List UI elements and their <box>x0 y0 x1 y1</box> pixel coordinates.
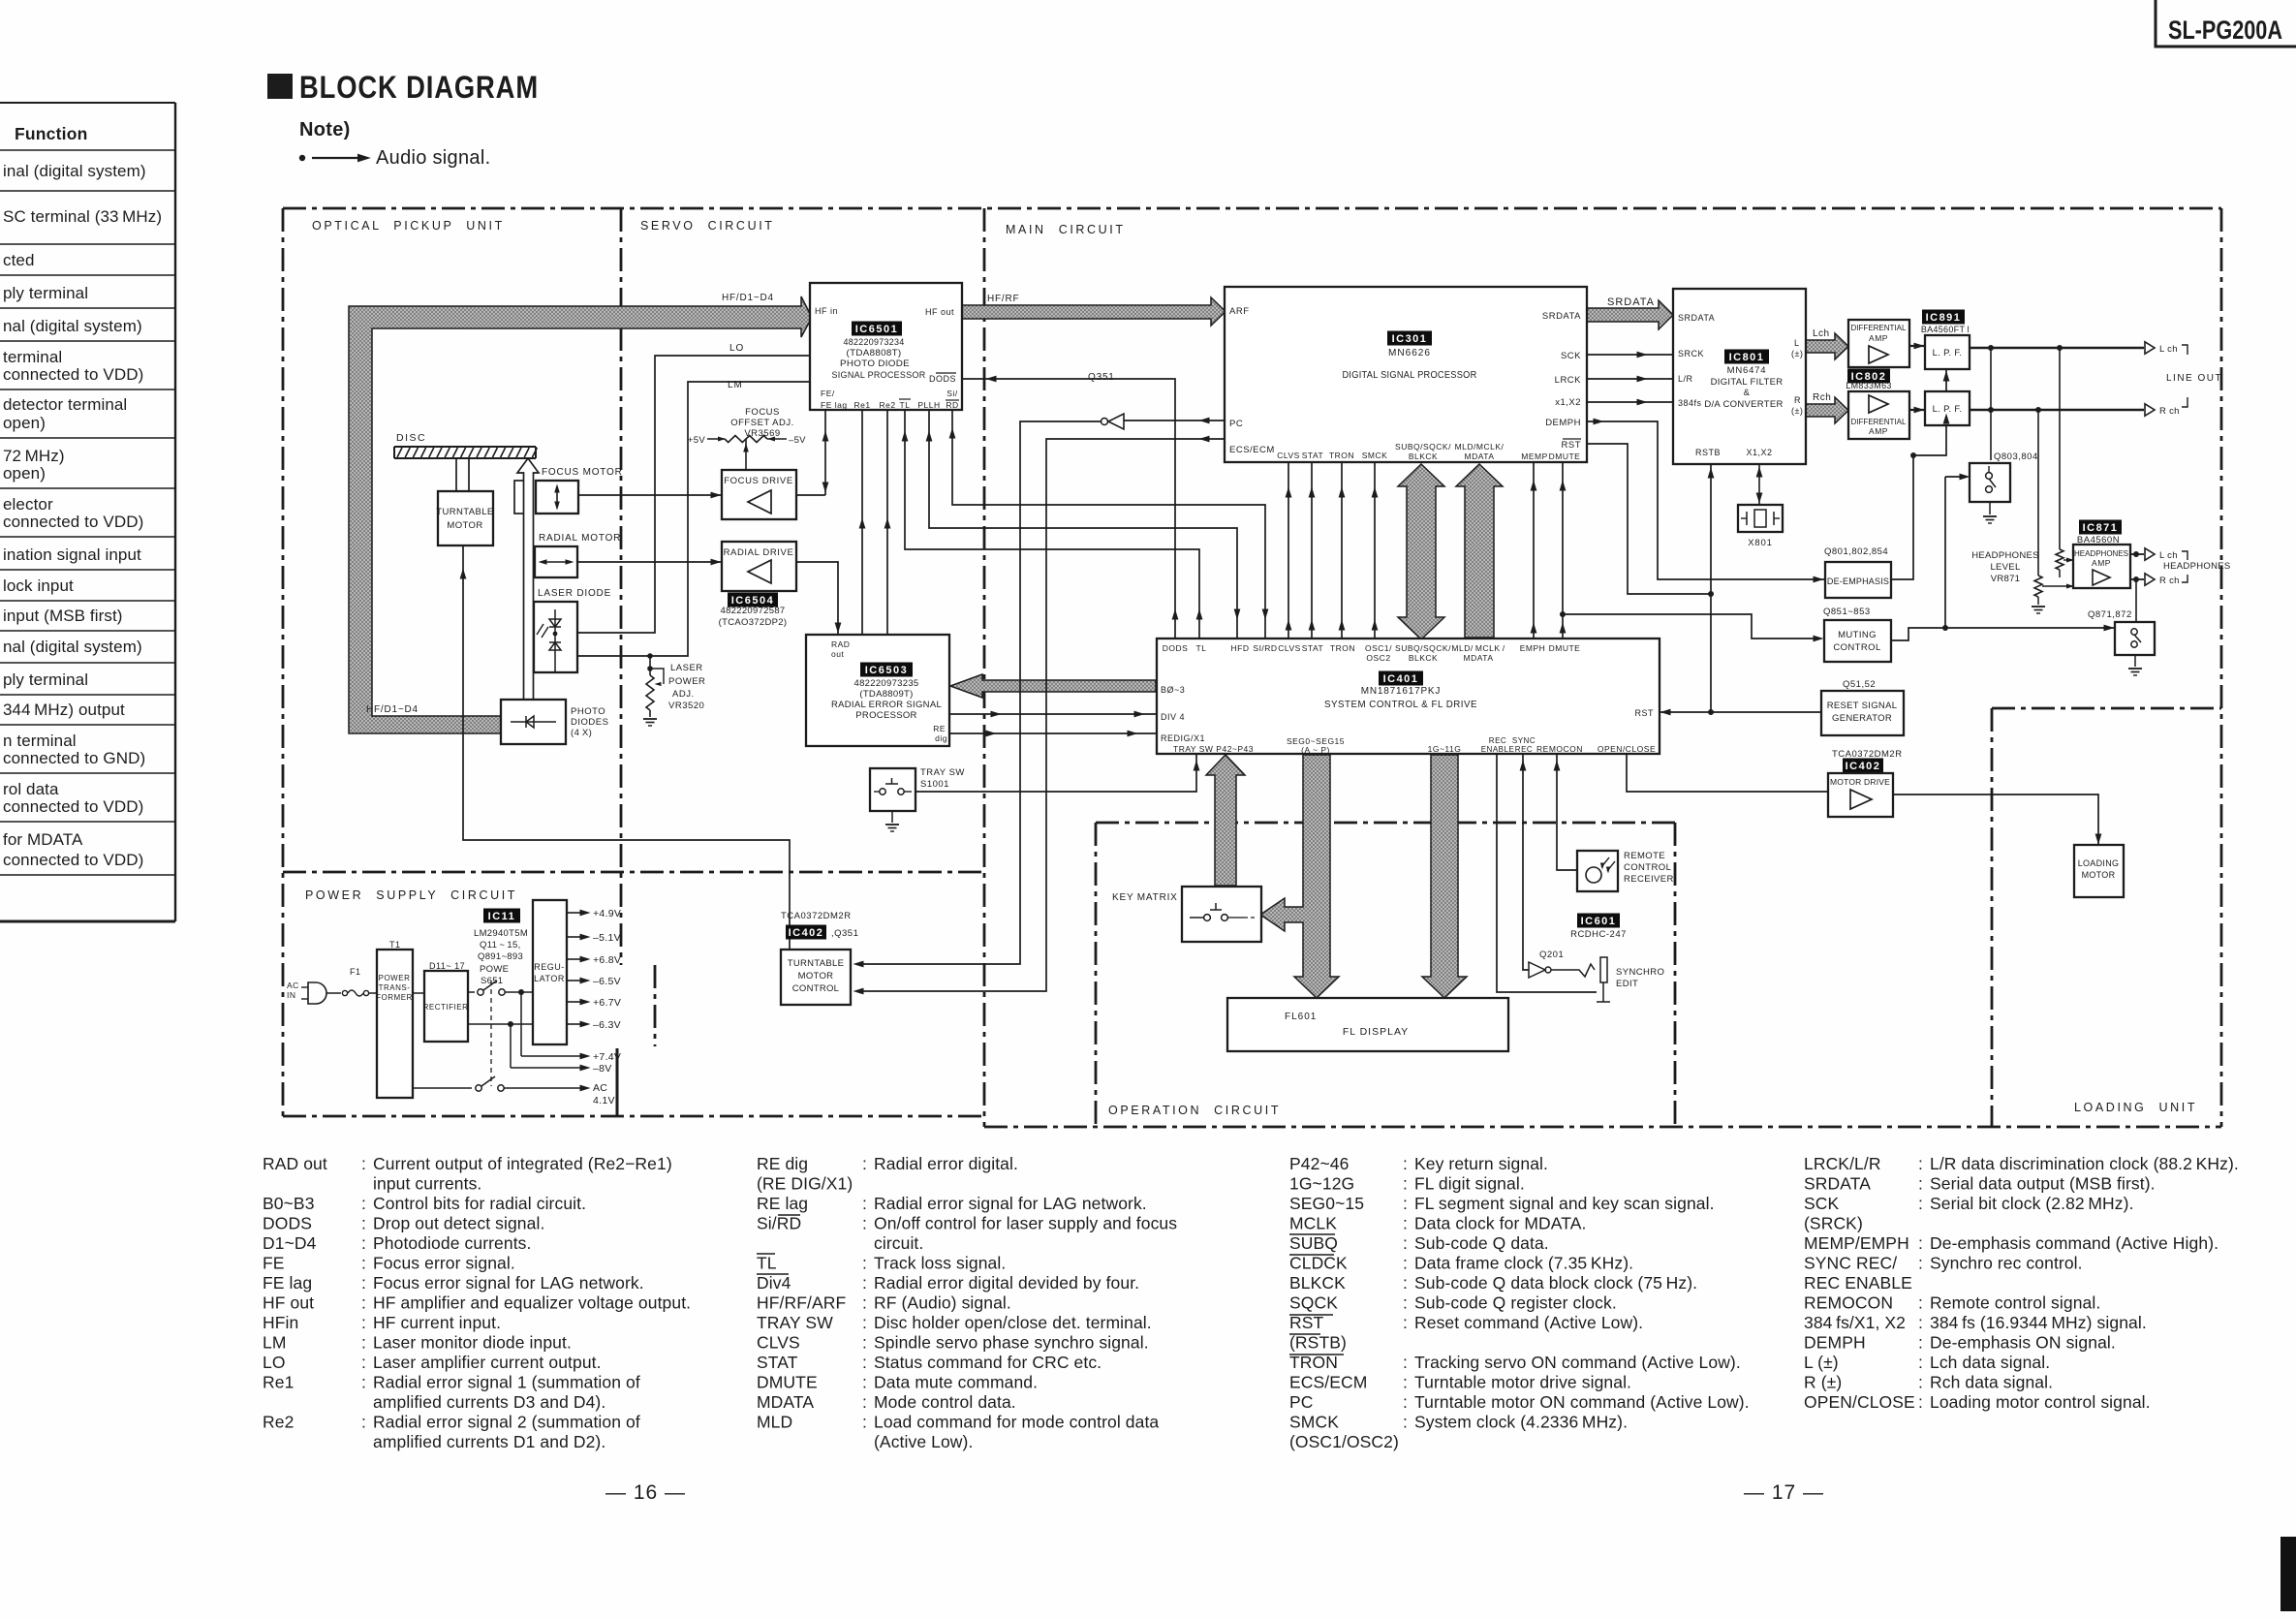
svg-text:SIGNAL PROCESSOR: SIGNAL PROCESSOR <box>832 370 926 381</box>
svg-text:HF/RF: HF/RF <box>987 294 1019 304</box>
svg-text:T1: T1 <box>389 940 401 950</box>
svg-text:FE lag: FE lag <box>821 400 848 410</box>
svg-text:IC801: IC801 <box>1729 352 1765 363</box>
svg-text:ply terminal: ply terminal <box>3 670 88 689</box>
svg-text:Photodiode currents.: Photodiode currents. <box>373 1233 532 1253</box>
svg-text:HEADPHONES: HEADPHONES <box>2074 549 2128 558</box>
svg-text:OPERATION CIRCUIT: OPERATION CIRCUIT <box>1108 1104 1281 1117</box>
svg-text:CLDCK: CLDCK <box>1289 1254 1348 1273</box>
svg-text:Data clock for MDATA.: Data clock for MDATA. <box>1414 1214 1586 1233</box>
svg-text:IC402: IC402 <box>1846 761 1881 772</box>
svg-text:Mode control data.: Mode control data. <box>874 1392 1016 1412</box>
svg-text:Disc holder open/close det. te: Disc holder open/close det. terminal. <box>874 1313 1152 1332</box>
svg-text:–6.5V: –6.5V <box>593 976 621 987</box>
svg-text:IC402: IC402 <box>789 927 824 939</box>
svg-text:RADIAL DRIVE: RADIAL DRIVE <box>724 547 794 558</box>
svg-text:L (±): L (±) <box>1804 1353 1839 1372</box>
svg-text:LRCK/L/R: LRCK/L/R <box>1804 1154 1881 1173</box>
svg-text:VR871: VR871 <box>1991 574 2021 584</box>
svg-text::: : <box>1918 1174 1923 1194</box>
svg-text::: : <box>862 1293 867 1313</box>
svg-text:MDATA: MDATA <box>1464 653 1494 663</box>
svg-text:RCDHC‑247: RCDHC‑247 <box>1570 929 1627 940</box>
svg-text:DIGITAL FILTER: DIGITAL FILTER <box>1711 377 1784 388</box>
svg-text:+4.9V: +4.9V <box>593 908 621 919</box>
svg-text:384 fs (16.9344 MHz) signal.: 384 fs (16.9344 MHz) signal. <box>1930 1313 2147 1332</box>
svg-text:FOCUS MOTOR: FOCUS MOTOR <box>542 467 623 478</box>
svg-text:–5V: –5V <box>789 435 806 446</box>
svg-text:SRDATA: SRDATA <box>1804 1174 1871 1194</box>
svg-text:SRDATA: SRDATA <box>1542 311 1581 322</box>
svg-text:PLLH: PLLH <box>917 400 940 410</box>
svg-text:CONTROL: CONTROL <box>1833 642 1880 653</box>
svg-text::: : <box>361 1313 366 1332</box>
svg-text:RECEIVER: RECEIVER <box>1624 874 1674 885</box>
svg-text:R (±): R (±) <box>1804 1373 1842 1392</box>
svg-text:x1,X2: x1,X2 <box>1555 397 1581 408</box>
svg-text:FORMER: FORMER <box>376 993 413 1002</box>
svg-text:SYSTEM CONTROL & FL DRIVE: SYSTEM CONTROL & FL DRIVE <box>1324 700 1477 710</box>
svg-text:ENABLE: ENABLE <box>1481 745 1515 754</box>
svg-text:SCK: SCK <box>1561 351 1581 361</box>
svg-text:D1~D4: D1~D4 <box>263 1233 317 1253</box>
svg-text::: : <box>1403 1154 1408 1173</box>
svg-text:L/R: L/R <box>1678 374 1693 384</box>
svg-text:Sub-code Q data block clock (7: Sub-code Q data block clock (75 Hz). <box>1414 1273 1697 1293</box>
svg-text::: : <box>361 1293 366 1313</box>
svg-text:ination signal input: ination signal input <box>3 545 141 564</box>
svg-text:MCLK: MCLK <box>1289 1214 1337 1233</box>
svg-text:L ch: L ch <box>2159 344 2178 355</box>
svg-text:POWER: POWER <box>379 974 411 982</box>
svg-text:482220972587: 482220972587 <box>720 606 785 616</box>
svg-text:TCA0372DM2R: TCA0372DM2R <box>781 911 852 921</box>
svg-text:X1,X2: X1,X2 <box>1746 448 1772 457</box>
svg-text:L: L <box>1794 338 1800 348</box>
svg-text::: : <box>1403 1233 1408 1253</box>
svg-text:REC: REC <box>1515 745 1533 754</box>
svg-text:HF out: HF out <box>263 1293 314 1313</box>
svg-text:LATOR: LATOR <box>534 974 565 983</box>
svg-text:482220973235: 482220973235 <box>853 678 918 689</box>
svg-text:Radial error digital devided b: Radial error digital devided by four. <box>874 1273 1139 1293</box>
svg-text:RECTIFIER: RECTIFIER <box>423 1003 469 1012</box>
svg-text:lock input: lock input <box>3 576 74 595</box>
svg-text:RST: RST <box>1289 1313 1324 1332</box>
svg-text:PROCESSOR: PROCESSOR <box>855 710 916 721</box>
svg-text:SEG0~15: SEG0~15 <box>1289 1194 1364 1213</box>
svg-text:DMUTE: DMUTE <box>1549 643 1581 653</box>
svg-text:IC6503: IC6503 <box>865 665 908 676</box>
svg-text:IC601: IC601 <box>1581 916 1617 927</box>
svg-text:connected to VDD): connected to VDD) <box>3 851 143 869</box>
svg-text:(±): (±) <box>1791 406 1803 416</box>
svg-text:RF (Audio) signal.: RF (Audio) signal. <box>874 1293 1011 1313</box>
svg-text:EMPH: EMPH <box>1520 643 1546 653</box>
svg-text:input currents.: input currents. <box>373 1174 481 1194</box>
svg-text:SUBQ/SQCK/: SUBQ/SQCK/ <box>1395 442 1451 452</box>
svg-text:(A ~ P): (A ~ P) <box>1301 745 1330 755</box>
svg-text:(OSC1/OSC2): (OSC1/OSC2) <box>1289 1432 1399 1451</box>
svg-text:connected to VDD): connected to VDD) <box>3 797 143 816</box>
svg-text:Remote control signal.: Remote control signal. <box>1930 1293 2100 1313</box>
svg-text:Re2: Re2 <box>879 400 895 410</box>
svg-text:FL601: FL601 <box>1285 1012 1317 1022</box>
svg-text:OSC1/: OSC1/ <box>1365 643 1392 653</box>
svg-text:–8V: –8V <box>593 1063 612 1075</box>
svg-text:D/A CONVERTER: D/A CONVERTER <box>1704 399 1783 410</box>
svg-text:IC891: IC891 <box>1926 312 1962 324</box>
svg-text:Rch data signal.: Rch data signal. <box>1930 1373 2053 1392</box>
svg-text:Key return signal.: Key return signal. <box>1414 1154 1548 1173</box>
svg-text:R: R <box>1794 395 1801 405</box>
svg-text:rol data: rol data <box>3 780 59 798</box>
svg-text:DIODES: DIODES <box>571 717 608 728</box>
svg-text:open): open) <box>3 464 46 483</box>
svg-text:(TDA8808T): (TDA8808T) <box>847 348 902 358</box>
svg-text:OSC2: OSC2 <box>1366 653 1390 663</box>
svg-text:IC401: IC401 <box>1383 673 1419 685</box>
svg-text::: : <box>862 1273 867 1293</box>
svg-text:Lch data signal.: Lch data signal. <box>1930 1353 2050 1372</box>
svg-text:RST: RST <box>1562 440 1582 451</box>
svg-text:DISC: DISC <box>396 432 426 444</box>
svg-text:Q851~853: Q851~853 <box>1823 607 1871 617</box>
svg-text::: : <box>862 1413 867 1432</box>
svg-text:— 16 —: — 16 — <box>605 1481 686 1504</box>
svg-text:RE lag: RE lag <box>757 1194 808 1213</box>
svg-text:Drop out detect signal.: Drop out detect signal. <box>373 1214 544 1233</box>
svg-text:RADIAL ERROR SIGNAL: RADIAL ERROR SIGNAL <box>831 700 942 710</box>
svg-text:L. P. F.: L. P. F. <box>1933 404 1963 415</box>
svg-text:STAT: STAT <box>1302 643 1323 653</box>
svg-text:REC ENABLE: REC ENABLE <box>1804 1273 1912 1293</box>
svg-text:Q803,804: Q803,804 <box>1994 452 2038 462</box>
svg-text:OPEN/CLOSE: OPEN/CLOSE <box>1804 1392 1915 1412</box>
svg-text:LINE OUT: LINE OUT <box>2166 373 2222 384</box>
svg-text:CONTROL: CONTROL <box>792 983 840 994</box>
svg-text:STAT: STAT <box>757 1353 798 1372</box>
svg-text:F1: F1 <box>350 967 361 977</box>
svg-text:OPTICAL PICKUP UNIT: OPTICAL PICKUP UNIT <box>312 219 505 233</box>
svg-text:–5.1V: –5.1V <box>593 932 621 944</box>
svg-text::: : <box>1918 1313 1923 1332</box>
svg-text:BA4560FT I: BA4560FT I <box>1921 325 1970 334</box>
svg-text:PHOTO DIODE: PHOTO DIODE <box>840 358 910 369</box>
svg-text:Q891~893: Q891~893 <box>478 951 523 962</box>
svg-text:Si/RD: Si/RD <box>757 1214 801 1233</box>
svg-text::: : <box>1403 1353 1408 1372</box>
svg-text:RD: RD <box>946 400 958 410</box>
svg-text::: : <box>1403 1293 1408 1313</box>
svg-text::: : <box>862 1214 867 1233</box>
svg-text:terminal: terminal <box>3 348 62 366</box>
svg-text:CONTROL: CONTROL <box>1624 862 1671 873</box>
svg-text:Status command for CRC etc.: Status command for CRC etc. <box>874 1353 1101 1372</box>
svg-text:SCK: SCK <box>1804 1194 1840 1213</box>
svg-text:72 MHz): 72 MHz) <box>3 447 65 465</box>
svg-text:HF/D1~D4: HF/D1~D4 <box>366 704 419 715</box>
svg-text:RAD out: RAD out <box>263 1154 327 1173</box>
svg-text:LO: LO <box>729 343 744 354</box>
svg-text:DMUTE: DMUTE <box>757 1373 818 1392</box>
svg-text:(±): (±) <box>1791 349 1803 358</box>
svg-text:X801: X801 <box>1748 538 1772 548</box>
svg-text:MDATA: MDATA <box>1465 452 1495 461</box>
svg-text:RADIAL MOTOR: RADIAL MOTOR <box>539 533 621 544</box>
svg-text:(RE DIG/X1): (RE DIG/X1) <box>757 1174 853 1194</box>
svg-text:Loading motor control signal.: Loading motor control signal. <box>1930 1392 2151 1412</box>
svg-text:SERVO CIRCUIT: SERVO CIRCUIT <box>640 219 775 233</box>
svg-text:S1001: S1001 <box>920 779 949 790</box>
svg-text:DMUTE: DMUTE <box>1549 452 1581 461</box>
svg-text:FL digit signal.: FL digit signal. <box>1414 1174 1525 1194</box>
svg-text:TL: TL <box>900 400 911 410</box>
svg-text:SRDATA: SRDATA <box>1678 313 1715 323</box>
svg-text:BØ~3: BØ~3 <box>1161 685 1185 695</box>
svg-text:L ch: L ch <box>2159 550 2178 561</box>
svg-text:HF in: HF in <box>815 306 838 316</box>
svg-text:REC: REC <box>1489 736 1506 745</box>
svg-text:LOADING UNIT: LOADING UNIT <box>2074 1101 2197 1114</box>
svg-text:BLKCK: BLKCK <box>1289 1273 1346 1293</box>
svg-text:Spindle servo phase synchro si: Spindle servo phase synchro signal. <box>874 1333 1149 1353</box>
svg-text:IC301: IC301 <box>1392 333 1428 345</box>
svg-text:nal (digital system): nal (digital system) <box>3 638 142 656</box>
svg-text:Laser amplifier current output: Laser amplifier current output. <box>373 1353 602 1372</box>
svg-text:MOTOR DRIVE: MOTOR DRIVE <box>1830 777 1890 787</box>
svg-text::: : <box>1918 1254 1923 1273</box>
svg-text::: : <box>1403 1413 1408 1432</box>
svg-text:open): open) <box>3 414 46 432</box>
svg-text:AMP: AMP <box>2092 558 2111 568</box>
svg-text:OPEN/CLOSE: OPEN/CLOSE <box>1598 744 1656 754</box>
svg-text:Turntable motor ON command (Ac: Turntable motor ON command (Active Low). <box>1414 1392 1750 1412</box>
svg-text:TCA0372DM2R: TCA0372DM2R <box>1832 749 1903 760</box>
svg-text:Tracking servo ON command (Act: Tracking servo ON command (Active Low). <box>1414 1353 1741 1372</box>
svg-text:Q351: Q351 <box>1088 372 1115 383</box>
svg-text:SL-PG200A: SL-PG200A <box>2168 16 2282 45</box>
svg-text:Si/: Si/ <box>946 389 958 398</box>
svg-text:HFin: HFin <box>263 1313 298 1332</box>
svg-text:connected to VDD): connected to VDD) <box>3 513 143 531</box>
svg-text:for MDATA: for MDATA <box>3 830 83 849</box>
svg-text:PC: PC <box>1289 1392 1314 1412</box>
svg-text:REMOCON: REMOCON <box>1804 1293 1893 1313</box>
svg-text:D11~ 17: D11~ 17 <box>429 961 465 971</box>
svg-text:MEMP: MEMP <box>1521 452 1548 461</box>
svg-text:System clock (4.2336 MHz).: System clock (4.2336 MHz). <box>1414 1413 1628 1432</box>
svg-text:POWER: POWER <box>668 676 705 687</box>
svg-text:TRAY SW: TRAY SW <box>757 1313 833 1332</box>
svg-text:DIV 4: DIV 4 <box>1161 712 1185 722</box>
svg-text:LASER: LASER <box>670 663 703 673</box>
svg-text:RE: RE <box>933 724 946 733</box>
svg-text:STAT: STAT <box>1302 451 1323 460</box>
svg-text:FL DISPLAY: FL DISPLAY <box>1343 1026 1409 1038</box>
svg-text:REDIG/X1: REDIG/X1 <box>1161 733 1205 743</box>
svg-text:Sub-code Q register clock.: Sub-code Q register clock. <box>1414 1293 1617 1313</box>
svg-text:(TCAO372DP2): (TCAO372DP2) <box>719 617 788 628</box>
svg-text:ECS/ECM: ECS/ECM <box>1229 445 1275 455</box>
svg-text:Radial error signal for LAG ne: Radial error signal for LAG network. <box>874 1194 1147 1213</box>
svg-text:HF amplifier and equalizer vol: HF amplifier and equalizer voltage outpu… <box>373 1293 691 1313</box>
svg-text:SRDATA: SRDATA <box>1607 296 1655 308</box>
svg-text::: : <box>1918 1392 1923 1412</box>
svg-text::: : <box>1918 1373 1923 1392</box>
svg-text::: : <box>361 1413 366 1432</box>
svg-text:&: & <box>1744 388 1751 398</box>
svg-text:DEMPH: DEMPH <box>1545 418 1581 428</box>
svg-text:,Q351: ,Q351 <box>831 928 858 939</box>
svg-text::: : <box>1403 1194 1408 1213</box>
svg-text:SYNC: SYNC <box>1512 736 1536 745</box>
svg-text:GENERATOR: GENERATOR <box>1832 713 1892 724</box>
svg-text:DEMPH: DEMPH <box>1804 1333 1866 1353</box>
svg-text::: : <box>361 1233 366 1253</box>
svg-text:AMP: AMP <box>1869 426 1888 436</box>
svg-text:TRANS-: TRANS- <box>379 983 411 992</box>
svg-text::: : <box>361 1154 366 1173</box>
svg-text:FL segment signal and key scan: FL segment signal and key scan signal. <box>1414 1194 1715 1213</box>
svg-text:Audio signal.: Audio signal. <box>376 147 490 169</box>
svg-text:+5V: +5V <box>688 435 705 446</box>
svg-text:(SRCK): (SRCK) <box>1804 1214 1863 1233</box>
svg-text:MUTING: MUTING <box>1838 630 1877 640</box>
svg-text::: : <box>1403 1392 1408 1412</box>
svg-text:FE/: FE/ <box>821 389 835 398</box>
svg-text:Synchro rec control.: Synchro rec control. <box>1930 1254 2083 1273</box>
svg-text:MLD: MLD <box>757 1413 792 1432</box>
svg-text:TL: TL <box>1196 643 1207 653</box>
svg-text:Reset command (Active Low).: Reset command (Active Low). <box>1414 1313 1643 1332</box>
svg-text:TURNTABLE: TURNTABLE <box>788 958 844 969</box>
svg-text:1G~11G: 1G~11G <box>1428 744 1462 754</box>
svg-text:Re1: Re1 <box>263 1373 294 1392</box>
svg-text:Serial bit clock (2.82 MHz).: Serial bit clock (2.82 MHz). <box>1930 1194 2134 1213</box>
svg-text:dig: dig <box>935 733 947 743</box>
svg-text:–6.3V: –6.3V <box>593 1019 621 1031</box>
svg-text:+6.8V: +6.8V <box>593 954 621 966</box>
svg-text:HEADPHONES: HEADPHONES <box>2163 561 2231 572</box>
svg-text::: : <box>361 1254 366 1273</box>
svg-text:OFFSET ADJ.: OFFSET ADJ. <box>730 418 794 428</box>
svg-text:CLVS: CLVS <box>1277 451 1300 460</box>
svg-text:Radial error signal 1 (summati: Radial error signal 1 (summation of <box>373 1373 640 1392</box>
svg-text:Focus error signal.: Focus error signal. <box>373 1254 515 1273</box>
svg-text:De-emphasis ON signal.: De-emphasis ON signal. <box>1930 1333 2116 1353</box>
svg-text:344 MHz) output: 344 MHz) output <box>3 701 125 719</box>
svg-text:MN6474: MN6474 <box>1727 365 1767 376</box>
svg-text:De-emphasis command (Active Hi: De-emphasis command (Active High). <box>1930 1233 2218 1253</box>
svg-text:— 17 —: — 17 — <box>1744 1481 1824 1504</box>
svg-text:Load command for mode control: Load command for mode control data <box>874 1413 1159 1432</box>
svg-text:Current output of integrated (: Current output of integrated (Re2−Re1) <box>373 1154 672 1173</box>
svg-text:FOCUS DRIVE: FOCUS DRIVE <box>724 476 793 486</box>
svg-text:SRCK: SRCK <box>1678 349 1704 358</box>
svg-text:MOTOR: MOTOR <box>447 520 482 531</box>
svg-text:TL: TL <box>757 1254 777 1273</box>
svg-text::: : <box>1918 1333 1923 1353</box>
svg-text:TRAY SW: TRAY SW <box>920 767 965 778</box>
svg-text:CLVS: CLVS <box>757 1333 800 1353</box>
svg-text:MLD/ MCLK /: MLD/ MCLK / <box>1451 643 1505 653</box>
svg-text:RE dig: RE dig <box>757 1154 808 1173</box>
svg-text:Rch: Rch <box>1813 392 1831 403</box>
svg-text:Sub-code Q data.: Sub-code Q data. <box>1414 1233 1549 1253</box>
svg-text:P42~46: P42~46 <box>1289 1154 1349 1173</box>
svg-text:Q11 ~ 15,: Q11 ~ 15, <box>480 940 521 950</box>
svg-text:AC: AC <box>593 1082 607 1094</box>
svg-text:IC11: IC11 <box>488 911 516 922</box>
svg-text:HEADPHONES: HEADPHONES <box>1971 550 2039 561</box>
svg-text:384fs: 384fs <box>1678 398 1702 408</box>
svg-text:R ch: R ch <box>2159 406 2180 417</box>
svg-text:nal (digital system): nal (digital system) <box>3 317 142 335</box>
svg-text:KEY MATRIX: KEY MATRIX <box>1112 892 1178 903</box>
svg-text:EDIT: EDIT <box>1616 979 1638 989</box>
svg-text:Div4: Div4 <box>757 1273 791 1293</box>
svg-text::: : <box>862 1373 867 1392</box>
svg-text:Q801,802,854: Q801,802,854 <box>1824 546 1888 557</box>
svg-text:Lch: Lch <box>1813 328 1830 339</box>
svg-text:LRCK: LRCK <box>1555 375 1582 386</box>
svg-text:+6.7V: +6.7V <box>593 997 621 1009</box>
svg-text:inal (digital system): inal (digital system) <box>3 162 146 180</box>
svg-text:HF out: HF out <box>925 307 954 317</box>
svg-text::: : <box>361 1373 366 1392</box>
svg-text:DIFFERENTIAL: DIFFERENTIAL <box>1851 324 1907 332</box>
svg-text:FE lag: FE lag <box>263 1273 312 1293</box>
svg-text:TURNTABLE: TURNTABLE <box>436 507 493 517</box>
svg-text::: : <box>1918 1154 1923 1173</box>
svg-text::: : <box>862 1313 867 1332</box>
svg-text:circuit.: circuit. <box>874 1233 923 1253</box>
svg-text:LM833M63: LM833M63 <box>1846 381 1891 390</box>
svg-text::: : <box>1403 1313 1408 1332</box>
svg-text:MN1871617PKJ: MN1871617PKJ <box>1361 686 1441 697</box>
svg-text:Track loss signal.: Track loss signal. <box>874 1254 1006 1273</box>
svg-text:LM2940T5M: LM2940T5M <box>474 928 528 939</box>
svg-text::: : <box>361 1333 366 1353</box>
svg-text:DE‑EMPHASIS: DE‑EMPHASIS <box>1827 576 1889 586</box>
svg-text:(4 X): (4 X) <box>571 728 592 738</box>
svg-text:DODS: DODS <box>263 1214 312 1233</box>
svg-text:VR3520: VR3520 <box>668 701 704 711</box>
svg-text:HF current input.: HF current input. <box>373 1313 501 1332</box>
svg-text:SYNC REC/: SYNC REC/ <box>1804 1254 1897 1273</box>
svg-text:(RSTB): (RSTB) <box>1289 1333 1347 1353</box>
svg-text:L/R data discrimination clock: L/R data discrimination clock (88.2 KHz)… <box>1930 1154 2239 1173</box>
svg-text:LM: LM <box>263 1333 287 1353</box>
svg-text:Control bits for radial circui: Control bits for radial circuit. <box>373 1194 586 1213</box>
svg-text:BLOCK DIAGRAM: BLOCK DIAGRAM <box>299 70 539 105</box>
svg-text:CLVS: CLVS <box>1278 643 1301 653</box>
svg-text:FE: FE <box>263 1254 285 1273</box>
svg-text:MAIN CIRCUIT: MAIN CIRCUIT <box>1006 223 1126 236</box>
svg-text:POWER SUPPLY CIRCUIT: POWER SUPPLY CIRCUIT <box>305 888 517 902</box>
svg-text::: : <box>1918 1233 1923 1253</box>
svg-text::: : <box>361 1273 366 1293</box>
svg-text:REMOCON: REMOCON <box>1536 744 1583 754</box>
svg-text:Re1: Re1 <box>853 400 870 410</box>
svg-text::: : <box>1403 1254 1408 1273</box>
svg-text:connected to GND): connected to GND) <box>3 749 145 767</box>
svg-text::: : <box>1918 1353 1923 1372</box>
svg-text:MN6626: MN6626 <box>1388 348 1431 358</box>
svg-text::: : <box>1403 1174 1408 1194</box>
svg-text:MOTOR: MOTOR <box>798 971 834 981</box>
